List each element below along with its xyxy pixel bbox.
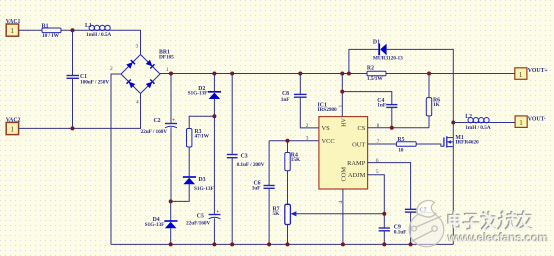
watermark text [448,211,531,229]
svg-text:8: 8 [377,123,380,129]
svg-text:47/1W: 47/1W [195,134,210,140]
svg-text:0.1uF: 0.1uF [394,230,407,236]
svg-text:D3: D3 [199,177,206,183]
wire HV branch [338,74,344,117]
svg-text:5K: 5K [273,211,281,217]
diode D4 [145,217,178,228]
node D2/R3 junction [212,114,216,118]
op-amp IC1 body [318,102,368,189]
node ADJM/wiper [382,212,386,216]
bridge BR1 [110,44,174,106]
svg-text:MUR3120-13: MUR3120-13 [373,56,403,62]
svg-text:RAMP: RAMP [347,160,366,167]
inductor L1 [85,23,111,38]
svg-text:VS: VS [322,125,331,132]
svg-text:IRS2980: IRS2980 [318,107,337,113]
svg-text:www.elecfans.com: www.elecfans.com [447,231,549,245]
wire L1 to bridge top [110,30,141,54]
svg-text:S1G-13F: S1G-13F [145,222,165,228]
node rail D4 [169,242,173,246]
svg-text:5: 5 [376,169,379,175]
svg-text:3: 3 [136,44,139,50]
inductor L2 [453,114,515,131]
svg-text:0.1uF / 200V: 0.1uF / 200V [237,162,265,168]
wire bridge pin1 rail left of R2 [160,73,367,75]
port VAC2 [6,118,21,135]
svg-text:VOUT-: VOUT- [528,116,546,122]
diode bottom-left [127,80,136,89]
node VAC2/C1 junction [71,126,75,130]
resistor R2 [367,65,386,82]
svg-text:+: + [216,209,219,215]
node rail COM [341,242,345,246]
node CS/C4 [390,126,394,130]
capacitor C4 [377,98,397,109]
resistor R3 [187,129,210,148]
capacitor C2 [141,118,178,136]
wire C8 branch and VS pin [300,74,319,130]
wire D2 branch [213,74,215,214]
wire R4 to R7 [287,171,289,205]
node junction after R1 [71,28,75,32]
svg-text:S1G-13F: S1G-13F [188,91,208,97]
svg-text:R2: R2 [367,65,374,71]
wire COM pin [338,189,344,244]
svg-text:10 / 1W: 10 / 1W [42,33,60,39]
svg-text:1mH / 0.5A: 1mH / 0.5A [465,125,490,131]
svg-text:6: 6 [376,158,379,164]
diode D3 [183,177,215,192]
capacitor C7 [405,207,427,213]
node HV junction [340,90,344,94]
wire bottom rail [111,243,453,245]
svg-text:IRFR4620: IRFR4620 [455,140,479,146]
svg-text:DF105: DF105 [159,55,174,61]
wire R3 to D3 [188,147,190,177]
svg-text:15K: 15K [291,157,301,163]
wire D1 loop [349,49,453,122]
svg-text:1uF: 1uF [252,185,261,191]
wire C1 to VAC2 net [72,78,74,128]
wire RAMP branch [368,158,411,209]
node VCC/R4 [286,139,290,143]
wire VAC2 to bridge pin4 [19,94,141,129]
resistor R6 [426,74,440,128]
node C8 on rail [298,72,302,76]
wire C1 branch upper [72,30,74,75]
transistor M1 [444,135,479,148]
svg-text:CS: CS [357,125,365,132]
node C3 on rail [230,72,234,76]
node D2 on rail [212,72,216,76]
wire CS pin line [368,123,429,129]
capacitor C5 [186,209,220,226]
capacitor C8 [281,91,307,103]
wire C5 to rail [213,218,215,244]
svg-text:1: 1 [519,71,523,79]
wire M1 drain-source vertical [452,123,454,245]
wire R5 to gate [416,144,444,146]
node rail R7 [286,242,290,246]
wire ADJM branch [368,169,385,228]
capacitor C1 [67,74,110,86]
svg-text:C3: C3 [241,153,248,159]
svg-text:L1: L1 [85,23,92,29]
svg-text:1: 1 [10,27,14,35]
svg-text:C2: C2 [154,118,161,124]
svg-text:+: + [172,118,175,124]
wire C4 to CS line [391,107,393,127]
node rail C3 [230,242,234,246]
wire VCC down to C6 [268,141,270,186]
wire D4 to rail [170,228,172,244]
wire rail right of R2 to VOUT+ [386,73,515,75]
svg-text:3: 3 [306,136,309,142]
node rail C9 [382,242,386,246]
wire VAC1 to R1 [19,29,42,31]
svg-text:2: 2 [306,123,309,129]
wire C7 to rail [410,212,412,244]
svg-text:100uF / 250V: 100uF / 250V [80,80,109,86]
node D1 on rail [347,72,351,76]
svg-text:1: 1 [519,119,523,127]
wire bridge pin2 to bottom rail [111,74,121,244]
svg-text:1: 1 [166,67,169,73]
svg-text:VOUT+: VOUT+ [528,68,548,74]
diode top-left [126,60,135,69]
svg-text:1mH / 0.5A: 1mH / 0.5A [86,32,111,38]
svg-text:OUT: OUT [352,141,365,148]
node R6 on rail [427,72,431,76]
node rail C7 [409,242,413,246]
node C2 on rail [169,72,173,76]
wire D3 to D4 node [171,184,190,201]
svg-text:22uF / 160V: 22uF / 160V [141,129,168,135]
capacitor C6 [252,181,275,192]
port VAC1 [6,19,21,36]
svg-text:1.5/1W: 1.5/1W [367,76,383,82]
watermark logo [409,200,444,246]
node rail C5 [212,242,216,246]
capacitor C9 [379,224,408,235]
svg-text:COM: COM [341,167,348,182]
potentiometer R7 [273,204,297,224]
svg-text:1nF: 1nF [377,102,386,108]
wire C3 branch [231,74,233,245]
svg-text:1: 1 [10,126,14,134]
svg-text:ADJM: ADJM [348,172,366,179]
diode bottom-right [146,80,155,89]
svg-text:4: 4 [338,201,344,204]
svg-text:1nF: 1nF [281,97,290,103]
port VOUT- [515,116,546,128]
svg-text:2: 2 [110,66,113,72]
wire C2 branch [170,74,172,202]
wire VCC pin [269,136,319,142]
diode D1 [373,40,403,62]
wire HV to C4 [342,92,392,105]
wire junction to R3 top [189,116,214,128]
svg-text:7: 7 [377,139,380,145]
svg-text:10: 10 [398,147,404,153]
wire C2 node to D4 [170,201,172,221]
svg-text:1K: 1K [433,102,441,108]
watermark url [446,230,549,245]
wire R7 wiper line [296,213,385,215]
wire R7 to rail [287,225,289,245]
resistor R4 [285,141,301,171]
port VOUT+ [515,68,548,80]
diode D2 [188,86,221,99]
node HV on rail [340,72,344,76]
node switch node [451,121,455,125]
svg-text:C5: C5 [197,213,204,219]
diode top-right [146,60,155,69]
node rail C6 [267,242,271,246]
capacitor C3 [227,153,265,168]
svg-text:S1G-13F: S1G-13F [194,186,214,192]
svg-text:HV: HV [342,117,348,126]
svg-text:VCC: VCC [322,138,335,145]
resistor R5 [368,137,417,153]
svg-text:R5: R5 [397,137,404,143]
svg-text:R1: R1 [42,24,49,30]
wire R1 to L1 [61,29,89,31]
svg-text:22uF/160V: 22uF/160V [186,220,210,226]
wire C6 to rail [268,188,270,244]
svg-text:4: 4 [136,100,139,106]
svg-text:1: 1 [338,105,344,108]
node D4 top junction [169,199,173,203]
resistor R1 [42,24,62,40]
wire C9 to rail [383,231,385,245]
